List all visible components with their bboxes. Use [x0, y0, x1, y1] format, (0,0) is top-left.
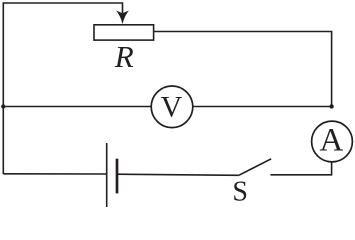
svg-text:R: R — [114, 39, 134, 74]
svg-text:A: A — [320, 122, 344, 158]
svg-text:S: S — [232, 177, 248, 208]
svg-text:V: V — [161, 90, 183, 123]
